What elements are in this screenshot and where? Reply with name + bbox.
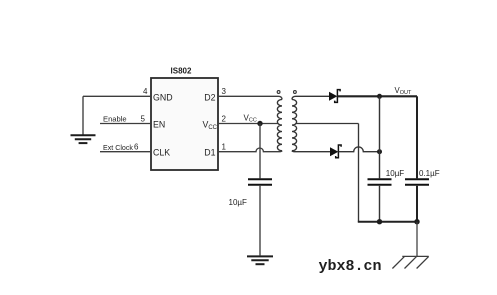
svg-text:2: 2 bbox=[222, 115, 227, 124]
svg-text:CLK: CLK bbox=[153, 148, 170, 158]
wire VCC down to cap bbox=[259, 124, 261, 179]
wire cap to ground bbox=[259, 186, 261, 256]
wire VOUT vertical bbox=[416, 96, 418, 178]
wire pin2 VCC bbox=[218, 123, 278, 125]
transformer T1 secondary winding bbox=[292, 100, 297, 151]
IC U1 IS802 body bbox=[151, 78, 218, 170]
wire C2 to bottom rail bbox=[379, 186, 381, 222]
svg-text:Ext Clock: Ext Clock bbox=[103, 144, 133, 152]
wire secondary top to diode bbox=[292, 96, 329, 99]
transformer T1 primary dot indicator bbox=[277, 91, 280, 94]
wire gnd vertical bbox=[82, 96, 84, 134]
junction dot diode CR2 output bbox=[377, 149, 382, 154]
junction dot bottom rail right bbox=[414, 219, 419, 224]
svg-text:5: 5 bbox=[141, 115, 146, 124]
wire C3 to bottom rail bbox=[416, 186, 418, 222]
svg-text:0.1µF: 0.1µF bbox=[419, 169, 440, 178]
junction dot top rail bbox=[377, 94, 382, 99]
wire diode CR1 to vout rail bbox=[338, 95, 418, 97]
wire to chassis ground bbox=[416, 222, 418, 257]
junction dot bottom rail left bbox=[377, 219, 382, 224]
capacitor C3 0.1uF bbox=[405, 179, 429, 185]
wire pin1 D1 with hop bbox=[218, 148, 282, 152]
svg-text:3: 3 bbox=[222, 87, 227, 96]
svg-text:EN: EN bbox=[153, 120, 165, 130]
wire pin5 EN bbox=[100, 123, 151, 125]
svg-text:D2: D2 bbox=[204, 93, 215, 103]
transformer T1 secondary dot indicator bbox=[294, 91, 297, 94]
wire pin4 GND bbox=[83, 95, 151, 97]
ground GND2 earth bbox=[247, 256, 273, 264]
wire center tap down bbox=[358, 124, 360, 222]
capacitor C1 10uF bbox=[248, 179, 272, 185]
svg-text:GND: GND bbox=[153, 93, 173, 103]
svg-text:6: 6 bbox=[134, 143, 139, 152]
svg-text:IS802: IS802 bbox=[171, 67, 192, 76]
svg-text:1: 1 bbox=[222, 143, 227, 152]
wire secondary center tap bbox=[297, 123, 359, 125]
wire pin3 D2 to transformer bbox=[218, 96, 282, 99]
svg-text:4: 4 bbox=[143, 87, 148, 96]
wire bottom rail bbox=[358, 221, 417, 223]
wire vertical C2 branch bbox=[379, 96, 381, 178]
wire diode CR2 with hop to junction bbox=[339, 147, 380, 152]
svg-text:VCC: VCC bbox=[244, 114, 257, 124]
diode CR1 schottky top bbox=[329, 90, 340, 103]
svg-text:ybx8.cn: ybx8.cn bbox=[319, 258, 382, 275]
svg-text:Enable: Enable bbox=[103, 115, 127, 124]
svg-text:D1: D1 bbox=[204, 148, 215, 158]
diode CR2 schottky bottom bbox=[330, 145, 341, 158]
wire secondary bottom to diode bbox=[292, 151, 330, 152]
capacitor C2 10uF bbox=[368, 179, 392, 185]
svg-text:VOUT: VOUT bbox=[395, 86, 412, 96]
ground GND1 earth bbox=[71, 135, 96, 143]
junction dot VCC bbox=[257, 121, 262, 126]
ground chassis bbox=[392, 256, 428, 268]
svg-text:10µF: 10µF bbox=[229, 198, 248, 207]
wire pin6 CLK bbox=[100, 151, 151, 153]
transformer T1 primary winding bbox=[277, 100, 282, 151]
svg-text:10µF: 10µF bbox=[386, 169, 405, 178]
